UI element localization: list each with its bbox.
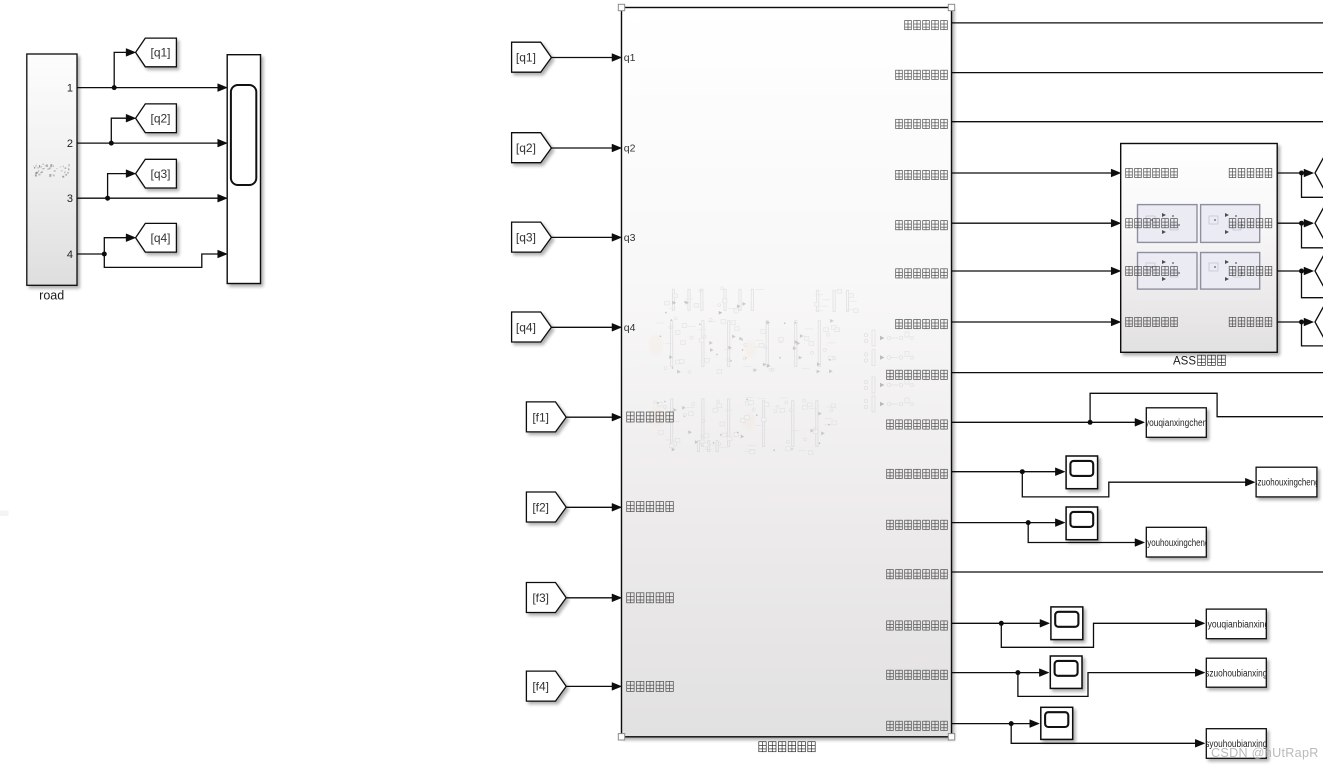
branch to syouqianbianxing [1001, 623, 1196, 647]
wire 右后轮胎动变形 [952, 723, 1031, 725]
junction [999, 621, 1004, 626]
scope screen [1055, 612, 1078, 627]
junction node 2 [109, 141, 114, 146]
input port label 右前主动力 [627, 502, 634, 512]
wire [f3] to subsystem [566, 597, 613, 599]
junction node out3 [1299, 269, 1304, 274]
wire [f2] to subsystem [566, 506, 613, 508]
svg-text:[q3]: [q3] [150, 167, 170, 181]
output port label 侧倾角加速度 [896, 119, 903, 128]
branch wire to goto q3 [108, 174, 128, 199]
output port label 右前垂向速度 [896, 221, 903, 230]
output port label 左后垂向速度 [896, 269, 903, 278]
branch wire down to edge [1302, 223, 1323, 248]
svg-text:[q1]: [q1] [150, 46, 170, 60]
output port label 右后轮胎动变形 [887, 721, 894, 730]
output port label 俯仰角加速度 [896, 70, 903, 79]
selection handles of subsystem [618, 4, 624, 10]
from tag [f2] [526, 492, 566, 522]
junction [1020, 469, 1025, 474]
svg-text:road: road [39, 288, 64, 302]
ASS input label 右后垂向速度 [1126, 317, 1133, 326]
wire 右后悬架动行程 [952, 522, 1057, 524]
input port label 左前主动力 [627, 412, 634, 422]
svg-text:syouhouxingcheng: syouhouxingcheng [1143, 538, 1209, 549]
branch wire down to edge [1302, 271, 1323, 298]
ASS input label 左后垂向速度 [1126, 266, 1133, 275]
junction node 1 [112, 85, 117, 90]
svg-text:4: 4 [67, 249, 73, 261]
scope screen [1045, 712, 1068, 727]
goto tag (clipped at edge) [1315, 207, 1323, 239]
branch to szuohoubianxing [1018, 673, 1196, 697]
output port label 右后悬架动行程 [887, 520, 894, 529]
output port label 左前悬架动行程 [887, 370, 894, 379]
wire 左前垂向速度 into ASS [952, 172, 1113, 174]
ASS ghost thumbnails [1138, 205, 1198, 243]
svg-text:q4: q4 [624, 322, 636, 334]
svg-text:szuohouxingcheng: szuohouxingcheng [1254, 478, 1320, 489]
branch wire down to edge [1302, 173, 1323, 197]
ASS input label 左前垂向速度 [1126, 168, 1133, 177]
from tag [q4] [512, 312, 552, 342]
svg-text:1: 1 [67, 82, 73, 94]
output port label 左后轮胎动变形 [887, 670, 894, 679]
goto tag (clipped at edge) [1315, 255, 1323, 287]
svg-text:[q4]: [q4] [150, 231, 170, 245]
junction [1015, 670, 1020, 675]
subsystem 主动悬架系统 (active suspension system) [622, 8, 952, 737]
goto tag [q1] [136, 38, 177, 67]
ASS output label 右后垂向力 [1229, 317, 1236, 326]
ASS output label 左前主动力 [1229, 168, 1236, 177]
input port label 左后主动力 [627, 593, 634, 603]
ASS output label 左后主动力 [1229, 266, 1236, 275]
wire 左前悬架动行程 to right edge [952, 372, 1323, 374]
wire 侧倾角加速度 to right edge [952, 121, 1323, 123]
svg-text:q3: q3 [624, 232, 636, 244]
wire [f1] to subsystem [566, 416, 613, 418]
wire [f4] to subsystem [566, 685, 613, 687]
svg-text:3: 3 [67, 193, 73, 205]
ASS input label 右前垂向速度 [1126, 219, 1133, 228]
wire 左后悬架动行程 [952, 471, 1057, 473]
wire [q2] to subsystem [551, 147, 613, 149]
junction node 4 [102, 252, 107, 257]
scope screen [1070, 461, 1093, 476]
wire ASS output 右前主动力 [1277, 222, 1301, 224]
junction [1026, 520, 1031, 525]
junction node 3 [105, 196, 110, 201]
output port label 左前垂向速度 [896, 170, 903, 179]
svg-text:[q3]: [q3] [516, 231, 536, 245]
junction node out1 [1299, 171, 1304, 176]
wire 车身加速度 to right edge [952, 22, 1323, 24]
output port label 右后垂向速度 [896, 320, 903, 329]
svg-text:ASS: ASS [1173, 355, 1196, 367]
wire 右前轮胎动变形 [952, 622, 1042, 624]
wire road out 1 [77, 87, 226, 89]
svg-text:[f4]: [f4] [532, 680, 549, 694]
branch to szuohouxingcheng [1022, 472, 1246, 497]
wire 右前垂向速度 into ASS [952, 222, 1113, 224]
wire road out 2 [77, 142, 226, 144]
scope screen [231, 85, 256, 185]
junction [1009, 721, 1014, 726]
svg-text:[f1]: [f1] [532, 410, 549, 424]
branch wire to goto q2 [111, 118, 127, 143]
goto tag [q3] [136, 159, 177, 188]
output port label 右前轮胎动变形 [887, 621, 894, 630]
svg-text:[q1]: [q1] [516, 51, 536, 65]
scope block (s1) [1066, 456, 1098, 489]
label 主动悬架系统 [759, 742, 766, 752]
svg-text:[q2]: [q2] [150, 111, 170, 125]
wire 俯仰角加速度 to right edge [952, 72, 1323, 74]
wire road out 3 [77, 197, 226, 199]
svg-text:szuohoubianxing: szuohoubianxing [1205, 668, 1267, 679]
svg-text:[f3]: [f3] [532, 591, 549, 605]
from tag [q1] [512, 42, 552, 72]
output port label 右前悬架动行程 [887, 420, 894, 429]
wire 左后轮胎动变形 [952, 672, 1041, 674]
wire 左前轮胎动变形 to right edge [952, 571, 1323, 573]
road internal ghost [33, 164, 70, 178]
junction node out2 [1299, 221, 1304, 226]
scope block (s3) [1051, 607, 1083, 640]
svg-text:[q4]: [q4] [516, 321, 536, 335]
branch wire down to edge [1302, 322, 1323, 346]
from tag [f1] [526, 402, 566, 432]
svg-text:2: 2 [67, 138, 73, 150]
wire [q1] to subsystem [551, 57, 613, 59]
scope screen [1055, 661, 1078, 676]
goto tag (clipped at edge) [1315, 157, 1323, 189]
ASS output label 右前主动力 [1229, 219, 1236, 228]
scope block (s5) [1041, 707, 1073, 739]
branch to syouhouxingcheng [1028, 523, 1136, 543]
svg-text:[q2]: [q2] [516, 141, 536, 155]
from tag [f3] [526, 583, 566, 613]
junction node out4 [1299, 320, 1304, 325]
output port label 车身加速度 [905, 21, 912, 30]
branch over W1 to edge [1090, 393, 1323, 422]
branch to syouhoubianxing [1011, 724, 1196, 744]
wire 左后垂向速度 into ASS [952, 270, 1113, 272]
goto tag (clipped at edge) [1315, 306, 1323, 338]
from tag [q3] [512, 222, 552, 252]
wire road out 4 [77, 253, 104, 255]
junction [1088, 420, 1093, 425]
ghost internal diagram of subsystem [649, 287, 914, 455]
output port label 左前轮胎动变形 [887, 570, 894, 579]
wire ASS output 左前主动力 [1277, 172, 1301, 174]
wire [q4] to subsystem [551, 326, 613, 328]
svg-text:q1: q1 [624, 52, 636, 64]
wire ASS output 左后主动力 [1277, 270, 1301, 272]
faint edge artifact [0, 511, 9, 517]
svg-text:[f2]: [f2] [532, 501, 549, 515]
input port label 右后主动力 [627, 681, 634, 691]
wire 右前悬架动行程 [952, 421, 1137, 423]
svg-text:syouqianxingcheng: syouqianxingcheng [1141, 418, 1212, 429]
svg-text:syouqianbianxing: syouqianbianxing [1203, 620, 1269, 631]
subsystem road [27, 54, 77, 285]
from tag [q2] [512, 133, 552, 163]
wire ASS output 右后垂向力 [1277, 321, 1301, 323]
scope block (s4) [1050, 656, 1082, 688]
from tag [f4] [526, 671, 566, 701]
subsystem ASS控制器 [1121, 144, 1278, 353]
svg-text:q2: q2 [624, 143, 636, 155]
wire 右后垂向速度 into ASS [952, 321, 1113, 323]
scope block (s2) [1066, 507, 1098, 540]
branch wire to goto q4 [104, 238, 127, 254]
scope screen [1070, 512, 1093, 527]
svg-text:CSDN @hUtRapR: CSDN @hUtRapR [1211, 746, 1319, 760]
goto tag [q4] [136, 223, 177, 252]
wire [q3] to subsystem [551, 236, 613, 238]
scope (tall display block) [227, 55, 260, 284]
goto tag [q2] [136, 104, 177, 133]
branch wire to goto q1 [114, 52, 127, 87]
output port label 左后悬架动行程 [887, 469, 894, 478]
